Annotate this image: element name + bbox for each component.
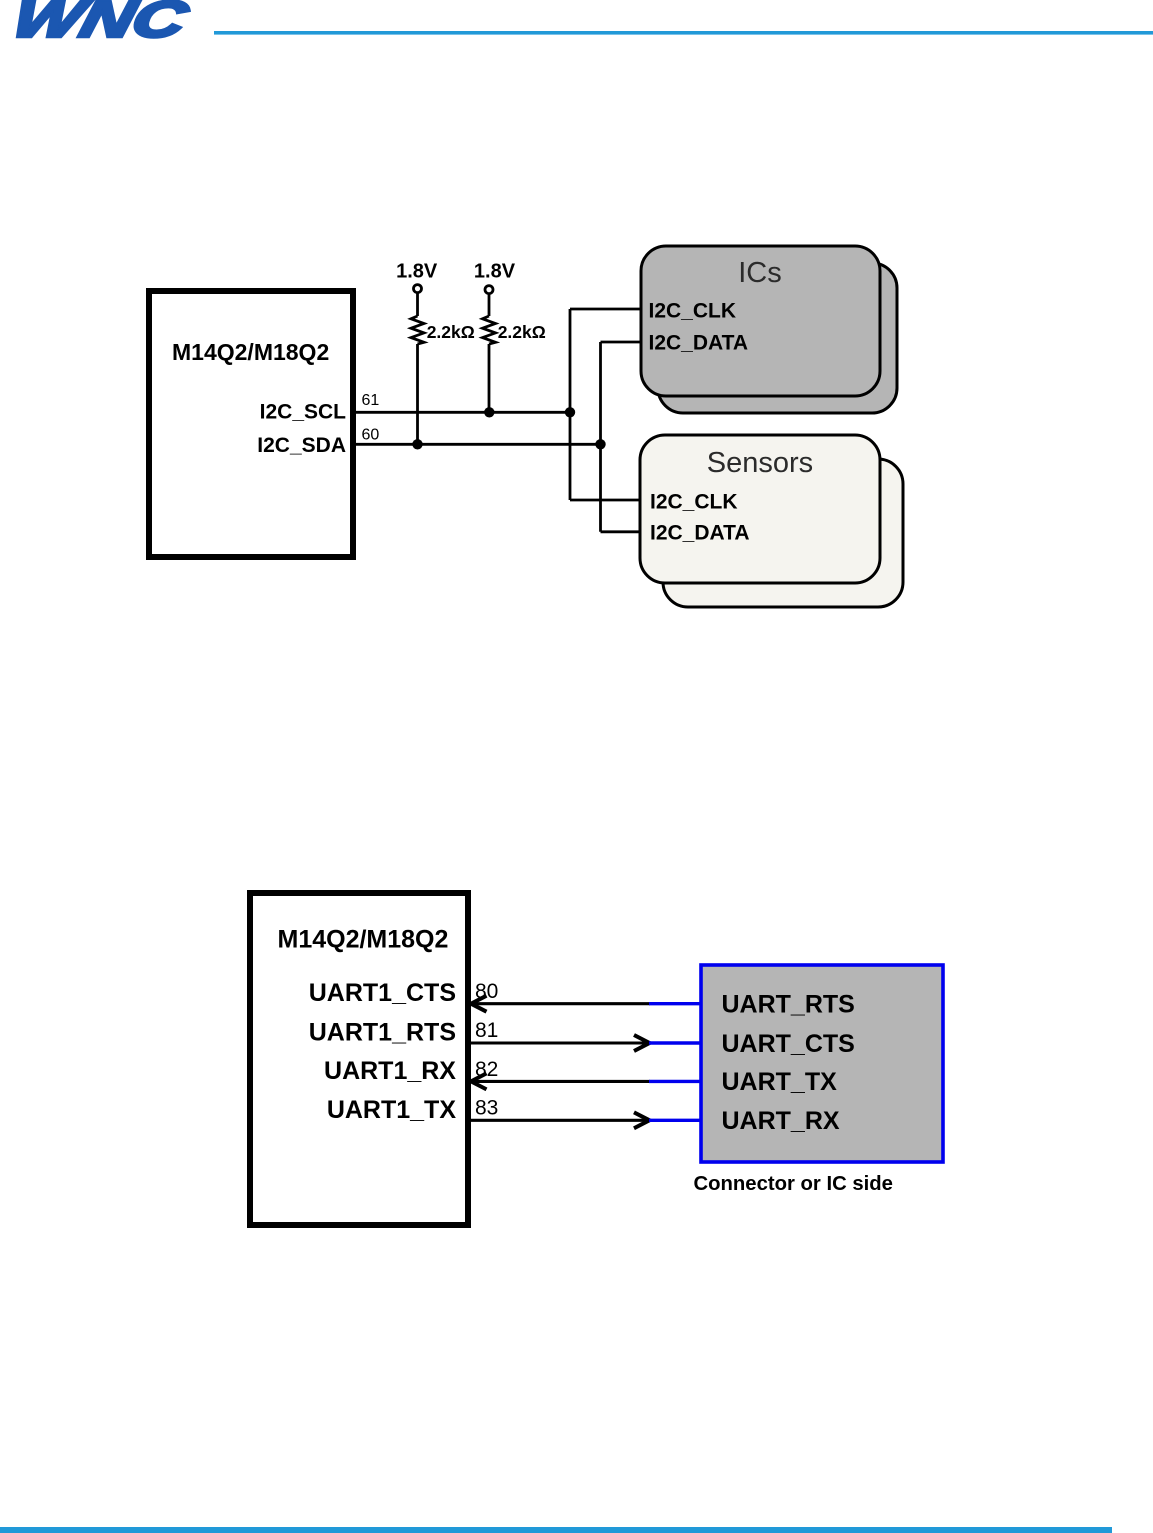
header rule [214,31,1153,35]
wire UART1_CTS (black, arrow into module) [471,996,650,1012]
svg-text:WNC: WNC [7,0,194,48]
svg-text:UART_CTS: UART_CTS [722,1030,855,1058]
svg-text:I2C_CLK: I2C_CLK [650,491,738,514]
svg-text:Connector or IC side: Connector or IC side [694,1173,893,1195]
wire to Sensors I2C_DATA [601,530,643,533]
svg-text:ICs: ICs [738,257,782,289]
svg-text:UART1_RTS: UART1_RTS [309,1019,456,1047]
wire UART1_TX (blue segment) [649,1119,701,1122]
svg-text:2.2kΩ: 2.2kΩ [427,322,475,342]
wire UART1_RX (blue segment) [649,1080,701,1083]
module box M14Q2/M18Q2 (UART) [250,893,468,1225]
svg-text:UART1_TX: UART1_TX [327,1096,457,1124]
wire I2C_SDA horizontal [356,443,601,446]
footer bar [0,1527,1112,1533]
svg-text:60: 60 [362,427,380,444]
wire SDA bus vertical [599,342,602,532]
svg-text:UART_RX: UART_RX [722,1107,840,1135]
svg-text:UART_RTS: UART_RTS [722,991,855,1019]
resistor R (2.2k, to SCL) [483,294,496,413]
junction dot SDA bus [595,439,605,449]
svg-text:83: 83 [475,1097,498,1120]
wire UART1_RTS (blue segment) [649,1041,701,1044]
junction dot SCL bus [565,407,575,417]
svg-text:I2C_DATA: I2C_DATA [650,522,750,545]
Sensors block [640,435,880,583]
wire I2C_SCL horizontal [356,411,570,414]
wire to ICs I2C_CLK [570,308,642,311]
Sensors block shadow [663,459,903,607]
wire to Sensors I2C_CLK [570,499,642,502]
junction dot on SDA [412,439,422,449]
junction dot on SCL [484,407,494,417]
wire to ICs I2C_DATA [601,341,643,344]
svg-text:61: 61 [362,392,380,409]
svg-text:UART1_RX: UART1_RX [324,1057,456,1085]
ICs block shadow [658,263,897,413]
svg-text:81: 81 [475,1019,498,1042]
wire UART1_CTS (blue segment) [649,1002,701,1005]
module box M14Q2/M18Q2 (I2C) [149,291,353,557]
svg-text:Sensors: Sensors [707,447,813,479]
wire UART1_RX (black, arrow into module) [471,1073,650,1089]
wire UART1_TX (black, arrow to connector) [471,1112,650,1128]
resistor R (2.2k, to SDA) [411,293,424,445]
svg-text:I2C_SDA: I2C_SDA [257,434,346,457]
svg-text:1.8V: 1.8V [396,261,438,283]
WNC logo [7,0,194,48]
svg-text:I2C_SCL: I2C_SCL [260,400,347,423]
svg-text:M14Q2/M18Q2: M14Q2/M18Q2 [172,339,329,365]
wire SCL bus vertical [569,309,572,500]
svg-text:I2C_CLK: I2C_CLK [649,299,737,322]
svg-text:UART_TX: UART_TX [722,1068,838,1096]
svg-text:1.8V: 1.8V [474,261,516,283]
supply terminal circle (left) [414,285,422,293]
svg-text:M14Q2/M18Q2: M14Q2/M18Q2 [278,926,449,954]
ICs block [641,246,880,396]
connector block (Connector or IC side) [701,965,943,1162]
supply terminal circle (right) [485,286,493,294]
svg-text:I2C_DATA: I2C_DATA [649,331,749,354]
wire UART1_RTS (black, arrow to connector) [471,1035,650,1051]
svg-text:UART1_CTS: UART1_CTS [309,979,456,1007]
svg-text:2.2kΩ: 2.2kΩ [498,322,546,342]
